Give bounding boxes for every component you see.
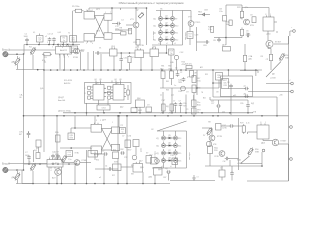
svg-text:1,5к: 1,5к xyxy=(208,29,212,31)
svg-text:С27: С27 xyxy=(211,101,214,103)
svg-text:3: 3 xyxy=(96,120,97,122)
svg-text:СЛ: СЛ xyxy=(186,109,188,111)
svg-text:2: 2 xyxy=(86,43,87,45)
svg-text:СВ1: СВ1 xyxy=(203,45,207,47)
svg-text:СБ2: СБ2 xyxy=(149,155,152,157)
svg-text:Д8: Д8 xyxy=(168,158,170,160)
svg-text:и2: и2 xyxy=(244,86,246,88)
svg-text:0,1: 0,1 xyxy=(33,32,35,34)
svg-text:R10: R10 xyxy=(175,25,178,27)
svg-text:4: 4 xyxy=(57,157,58,159)
svg-text:ДВ1: ДВ1 xyxy=(140,167,144,169)
svg-text:R43: R43 xyxy=(166,90,169,92)
svg-text:т4: т4 xyxy=(161,166,163,168)
svg-text:R52: R52 xyxy=(96,160,99,162)
svg-text:ВЫв: ВЫв xyxy=(197,105,201,107)
svg-text:КТ367: КТ367 xyxy=(275,42,282,44)
svg-text:R50: R50 xyxy=(255,149,258,151)
svg-text:ДА3: ДА3 xyxy=(96,82,99,85)
svg-text:СП2: СП2 xyxy=(124,157,127,159)
svg-text:Д4: Д4 xyxy=(115,79,117,81)
svg-text:Д4: Д4 xyxy=(165,37,167,39)
svg-text:R9: R9 xyxy=(175,18,177,20)
svg-text:х5: х5 xyxy=(29,162,31,164)
svg-text:ив2: ив2 xyxy=(171,95,174,97)
svg-text:Сп: Сп xyxy=(174,85,176,87)
svg-text:СУ04: СУ04 xyxy=(101,108,105,110)
svg-text:реле: реле xyxy=(141,148,143,152)
svg-text:R13: R13 xyxy=(178,138,181,140)
svg-text:1: 1 xyxy=(58,44,59,46)
svg-text:11: 11 xyxy=(64,57,66,59)
svg-text:4: 4 xyxy=(59,57,60,59)
svg-text:х2: х2 xyxy=(45,36,47,38)
svg-text:С4: С4 xyxy=(105,166,107,168)
svg-text:-0.65В: -0.65В xyxy=(237,163,243,165)
svg-text:R41: R41 xyxy=(166,81,169,83)
svg-text:ДУ5: ДУ5 xyxy=(135,47,139,49)
svg-text:R14: R14 xyxy=(178,145,181,147)
svg-text:СВ3: СВ3 xyxy=(204,10,208,12)
svg-text:КТ6В: КТ6В xyxy=(73,57,78,59)
svg-text:7: 7 xyxy=(110,12,111,14)
svg-text:R57: R57 xyxy=(112,175,115,177)
svg-text:3: 3 xyxy=(63,44,64,46)
svg-text:ЖЗ: ЖЗ xyxy=(113,150,116,152)
svg-text:т1: т1 xyxy=(158,43,160,45)
svg-text:Д6: Д6 xyxy=(168,143,170,145)
svg-text:4: 4 xyxy=(51,170,52,172)
svg-text:СПб: СПб xyxy=(71,40,75,42)
svg-text:ДБ2: ДБ2 xyxy=(120,107,123,109)
svg-text:иЗ: иЗ xyxy=(99,177,101,179)
svg-text:ДУ4: ДУ4 xyxy=(111,46,115,48)
svg-text:R16: R16 xyxy=(178,160,181,162)
svg-text:ДА4: ДА4 xyxy=(116,82,119,85)
svg-text:Пк: Пк xyxy=(170,53,172,55)
svg-text:СВ2: СВ2 xyxy=(120,149,124,151)
svg-text:С27: С27 xyxy=(211,103,214,105)
svg-text:5: 5 xyxy=(47,42,48,44)
svg-text:0,05: 0,05 xyxy=(58,32,61,34)
svg-text:КТ367: КТ367 xyxy=(281,141,288,143)
svg-text:Д1: Д1 xyxy=(44,62,46,64)
svg-text:СУ2: СУ2 xyxy=(101,151,104,153)
svg-text:С2: С2 xyxy=(180,72,182,74)
svg-text:ДВ4: ДВ4 xyxy=(149,177,153,179)
svg-text:ЖД2: ЖД2 xyxy=(237,160,241,162)
svg-text:80: 80 xyxy=(20,97,22,99)
svg-text:6: 6 xyxy=(92,43,93,45)
svg-text:С7: С7 xyxy=(173,101,175,103)
svg-text:R50: R50 xyxy=(285,55,288,57)
svg-text:80?: 80? xyxy=(19,134,22,136)
svg-text:3: 3 xyxy=(86,10,87,12)
svg-text:СЖ: СЖ xyxy=(223,161,226,163)
svg-text:56к: 56к xyxy=(189,36,192,38)
svg-text:8: 8 xyxy=(265,14,266,16)
svg-text:т3: т3 xyxy=(174,43,176,45)
svg-text:1: 1 xyxy=(112,122,113,124)
svg-text:2: 2 xyxy=(52,157,53,159)
svg-text:R31: R31 xyxy=(205,74,208,76)
svg-text:R9: R9 xyxy=(261,56,263,58)
svg-text:1: 1 xyxy=(265,122,266,124)
svg-text:ПВ2: ПВ2 xyxy=(168,66,171,68)
svg-text:ДБ6: ДБ6 xyxy=(137,98,141,100)
svg-text:1к: 1к xyxy=(63,40,65,42)
svg-text:Т2: Т2 xyxy=(68,33,70,35)
svg-text:1: 1 xyxy=(105,12,106,14)
svg-text:СУ1: СУ1 xyxy=(222,112,225,114)
svg-text:КТ315: КТ315 xyxy=(195,22,202,24)
svg-text:т2: т2 xyxy=(166,43,168,45)
svg-text:КТ6В: КТ6В xyxy=(82,160,87,162)
svg-text:-0.65В: -0.65В xyxy=(270,78,276,80)
svg-text:ДВ7: ДВ7 xyxy=(158,169,162,171)
svg-text:1: 1 xyxy=(270,14,271,16)
svg-text:т5: т5 xyxy=(170,166,172,168)
svg-text:и5а: и5а xyxy=(217,77,220,79)
svg-text:R11: R11 xyxy=(175,32,178,34)
svg-text:ив: ив xyxy=(160,95,162,97)
svg-text:Д5: Д5 xyxy=(168,135,170,137)
svg-text:5: 5 xyxy=(100,120,101,122)
svg-text:+7: +7 xyxy=(289,80,291,82)
svg-text:5: 5 xyxy=(68,44,69,46)
svg-text:АБ4П2: АБ4П2 xyxy=(60,49,68,52)
svg-text:Р29: Р29 xyxy=(240,123,243,125)
svg-text:9: 9 xyxy=(68,57,69,59)
svg-text:5к: 5к xyxy=(122,132,124,134)
svg-text:светорег: светорег xyxy=(189,152,191,160)
svg-text:3: 3 xyxy=(55,157,56,159)
svg-text:Облегченный усилитель с термор: Облегченный усилитель с терморегуляторам… xyxy=(119,1,184,5)
svg-text:5: 5 xyxy=(92,10,93,12)
svg-text:А2024: А2024 xyxy=(64,82,71,85)
svg-text:Д1: Д1 xyxy=(165,16,167,18)
svg-text:3: 3 xyxy=(52,47,53,49)
svg-text:R12: R12 xyxy=(175,39,178,41)
svg-text:СВ-: СВ- xyxy=(20,95,24,97)
svg-text:СВ7: СВ7 xyxy=(163,177,166,179)
svg-text:и05: и05 xyxy=(233,95,236,97)
svg-text:ПБ1: ПБ1 xyxy=(160,69,163,71)
svg-text:ДУ6: ДУ6 xyxy=(152,47,156,49)
svg-text:ЛУВк: ЛУВк xyxy=(75,153,80,155)
svg-text:С2ЛБ: С2ЛБ xyxy=(222,128,227,130)
svg-text:R1÷R15: R1÷R15 xyxy=(64,79,73,82)
svg-text:СЭ2: СЭ2 xyxy=(180,52,184,54)
svg-text:т.3: т.3 xyxy=(197,177,199,179)
svg-text:R15: R15 xyxy=(178,153,181,155)
svg-text:ДБ7: ДБ7 xyxy=(139,161,143,163)
svg-text:Д7: Д7 xyxy=(168,150,170,152)
svg-text:КТ2В: КТ2В xyxy=(217,136,222,138)
svg-text:ПБ2: ПБ2 xyxy=(169,69,172,71)
svg-text:R26 47к: R26 47к xyxy=(185,64,192,66)
svg-text:С2Д СП: С2Д СП xyxy=(52,152,60,154)
svg-text:2: 2 xyxy=(60,44,61,46)
svg-text:8: 8 xyxy=(62,47,63,49)
svg-text:R5 780к: R5 780к xyxy=(72,6,79,8)
svg-text:Д6: Д6 xyxy=(100,79,102,81)
svg-text:1: 1 xyxy=(49,157,50,159)
svg-text:9: 9 xyxy=(60,170,61,172)
svg-text:СЗБ: СЗБ xyxy=(140,45,145,47)
svg-text:Д6: Д6 xyxy=(120,79,122,81)
svg-text:Д9-Б14 УПД: Д9-Б14 УПД xyxy=(58,111,71,113)
svg-text:8: 8 xyxy=(260,122,261,124)
svg-text:Д2: Д2 xyxy=(165,23,167,25)
svg-text:ПВ1: ПВ1 xyxy=(161,66,164,68)
svg-text:R9: R9 xyxy=(36,148,38,150)
svg-text:11: 11 xyxy=(55,170,57,172)
svg-text:1,5ч: 1,5ч xyxy=(68,159,71,161)
svg-text:5: 5 xyxy=(60,157,61,159)
svg-text:4,7к: 4,7к xyxy=(246,123,250,125)
svg-text:С2 С3: С2 С3 xyxy=(48,34,53,36)
svg-text:ДВк: ДВк xyxy=(249,59,253,61)
svg-text:Д5-Д7: Д5-Д7 xyxy=(58,97,65,99)
svg-text:Д4: Д4 xyxy=(95,79,97,81)
svg-text:иП2: иП2 xyxy=(168,113,171,115)
svg-text:4: 4 xyxy=(66,44,67,46)
svg-text:АУ1: АУ1 xyxy=(200,66,203,69)
svg-text:С1ЛБ: С1ЛБ xyxy=(214,156,219,158)
svg-text:АБ4П2: АБ4П2 xyxy=(52,162,60,165)
svg-text:Вход 2: Вход 2 xyxy=(2,163,10,166)
svg-text:д7: д7 xyxy=(187,77,189,79)
svg-text:Д3: Д3 xyxy=(165,30,167,32)
svg-text:Бип-Б4: Бип-Б4 xyxy=(58,100,66,102)
